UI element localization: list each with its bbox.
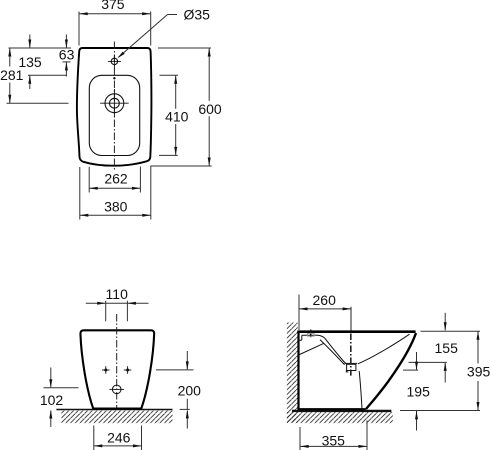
front drain symbol [109,385,124,394]
plan view centerline [113,42,115,172]
front fixing holes [102,366,131,374]
svg-text:380: 380 [104,198,128,214]
svg-text:600: 600 [198,101,222,117]
dimension 410 [159,75,178,155]
svg-text:262: 262 [104,171,128,187]
dimension 380 [80,166,151,220]
front ground hatch [61,411,172,424]
dimension 155 [409,313,481,383]
front view centerline [116,314,118,409]
dimension 262 [89,167,140,193]
dimension 281 [7,48,69,103]
svg-text:355: 355 [322,433,346,449]
plan faucet hole [108,55,121,68]
side view ground line [292,410,391,412]
svg-text:246: 246 [107,430,131,446]
plan view body outline [77,48,152,166]
side view wall hatch [287,323,298,423]
dimension 395 [477,332,479,411]
front ground line [56,409,172,411]
side view body outline [297,331,416,411]
dimension 110 [86,301,149,322]
svg-text:375: 375 [101,0,125,12]
dimension 600 [151,48,212,166]
dimension 135 [28,35,67,90]
plan view basin inner outline [89,75,139,155]
side drain box [345,363,362,409]
svg-text:155: 155 [435,340,459,356]
svg-text:110: 110 [106,286,129,302]
side tap hole tick [310,330,312,338]
dimension 375 [79,12,151,46]
svg-text:281: 281 [0,67,24,83]
dimension 102 [44,368,79,428]
dimension 246 [94,426,142,450]
dimension 195 [400,352,480,431]
svg-text:195: 195 [407,384,431,400]
plan basin nib [113,77,115,79]
side tap deck profile [299,335,346,364]
side drain centerline [350,307,352,376]
front view body outline [80,330,154,408]
svg-text:260: 260 [313,292,337,308]
svg-text:410: 410 [165,109,189,125]
dimension 63 [9,35,72,77]
dimension 260 [299,295,351,331]
svg-text:395: 395 [467,364,490,380]
svg-text:Ø35: Ø35 [184,6,211,22]
plan drain circles [100,89,129,118]
dimension 355 [300,421,367,450]
svg-text:102: 102 [40,392,64,408]
leader diameter 35 [119,15,178,58]
svg-text:200: 200 [178,382,202,398]
side ground hatch [287,412,393,423]
svg-text:63: 63 [59,47,75,63]
side basin front curve [358,334,410,364]
dimension 200 [156,351,194,429]
